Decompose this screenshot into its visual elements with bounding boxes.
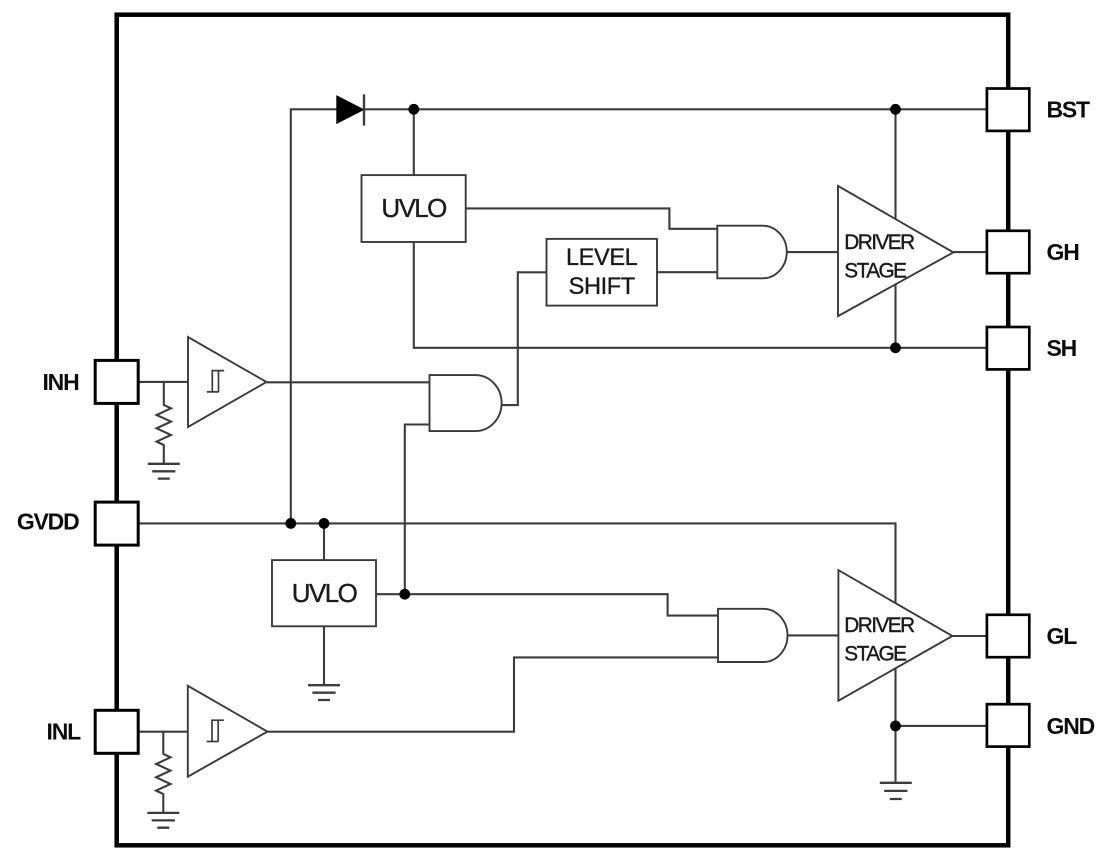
svg-text:DRIVER: DRIVER	[844, 614, 915, 637]
svg-text:INH: INH	[42, 369, 79, 395]
svg-text:UVLO: UVLO	[292, 578, 357, 608]
svg-text:GH: GH	[1047, 239, 1080, 265]
svg-text:GND: GND	[1047, 713, 1095, 739]
svg-text:UVLO: UVLO	[381, 193, 446, 223]
svg-text:SH: SH	[1047, 335, 1077, 361]
svg-text:INL: INL	[47, 719, 82, 745]
svg-text:STAGE: STAGE	[844, 260, 906, 283]
svg-text:STAGE: STAGE	[844, 643, 906, 666]
svg-text:GVDD: GVDD	[17, 508, 79, 534]
svg-text:GL: GL	[1047, 623, 1078, 649]
svg-text:SHIFT: SHIFT	[569, 274, 635, 300]
svg-text:LEVEL: LEVEL	[566, 245, 638, 271]
svg-text:BST: BST	[1047, 97, 1091, 123]
svg-text:DRIVER: DRIVER	[844, 231, 915, 254]
